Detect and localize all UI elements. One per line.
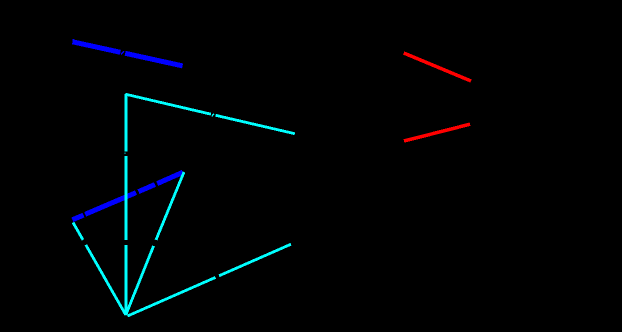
- cyan right fan segment: [128, 244, 292, 316]
- cyan diagonal segment (top): [126, 94, 295, 134]
- blue segment B (lower-left, thick, dashed): [72, 172, 182, 220]
- blue segment A (top-left, thick, dashed): [73, 42, 183, 66]
- red segment upper: [404, 53, 471, 81]
- cyan vertical segment: [125, 94, 128, 313]
- tick mark on diagonal segment: [212, 114, 214, 117]
- red segment lower: [404, 124, 470, 141]
- cyan left fan segment: [73, 223, 126, 316]
- tick mark on segment A: [72, 39, 124, 54]
- tick mark on vertical segment: [124, 153, 125, 154]
- cyan middle fan segment: [126, 172, 184, 315]
